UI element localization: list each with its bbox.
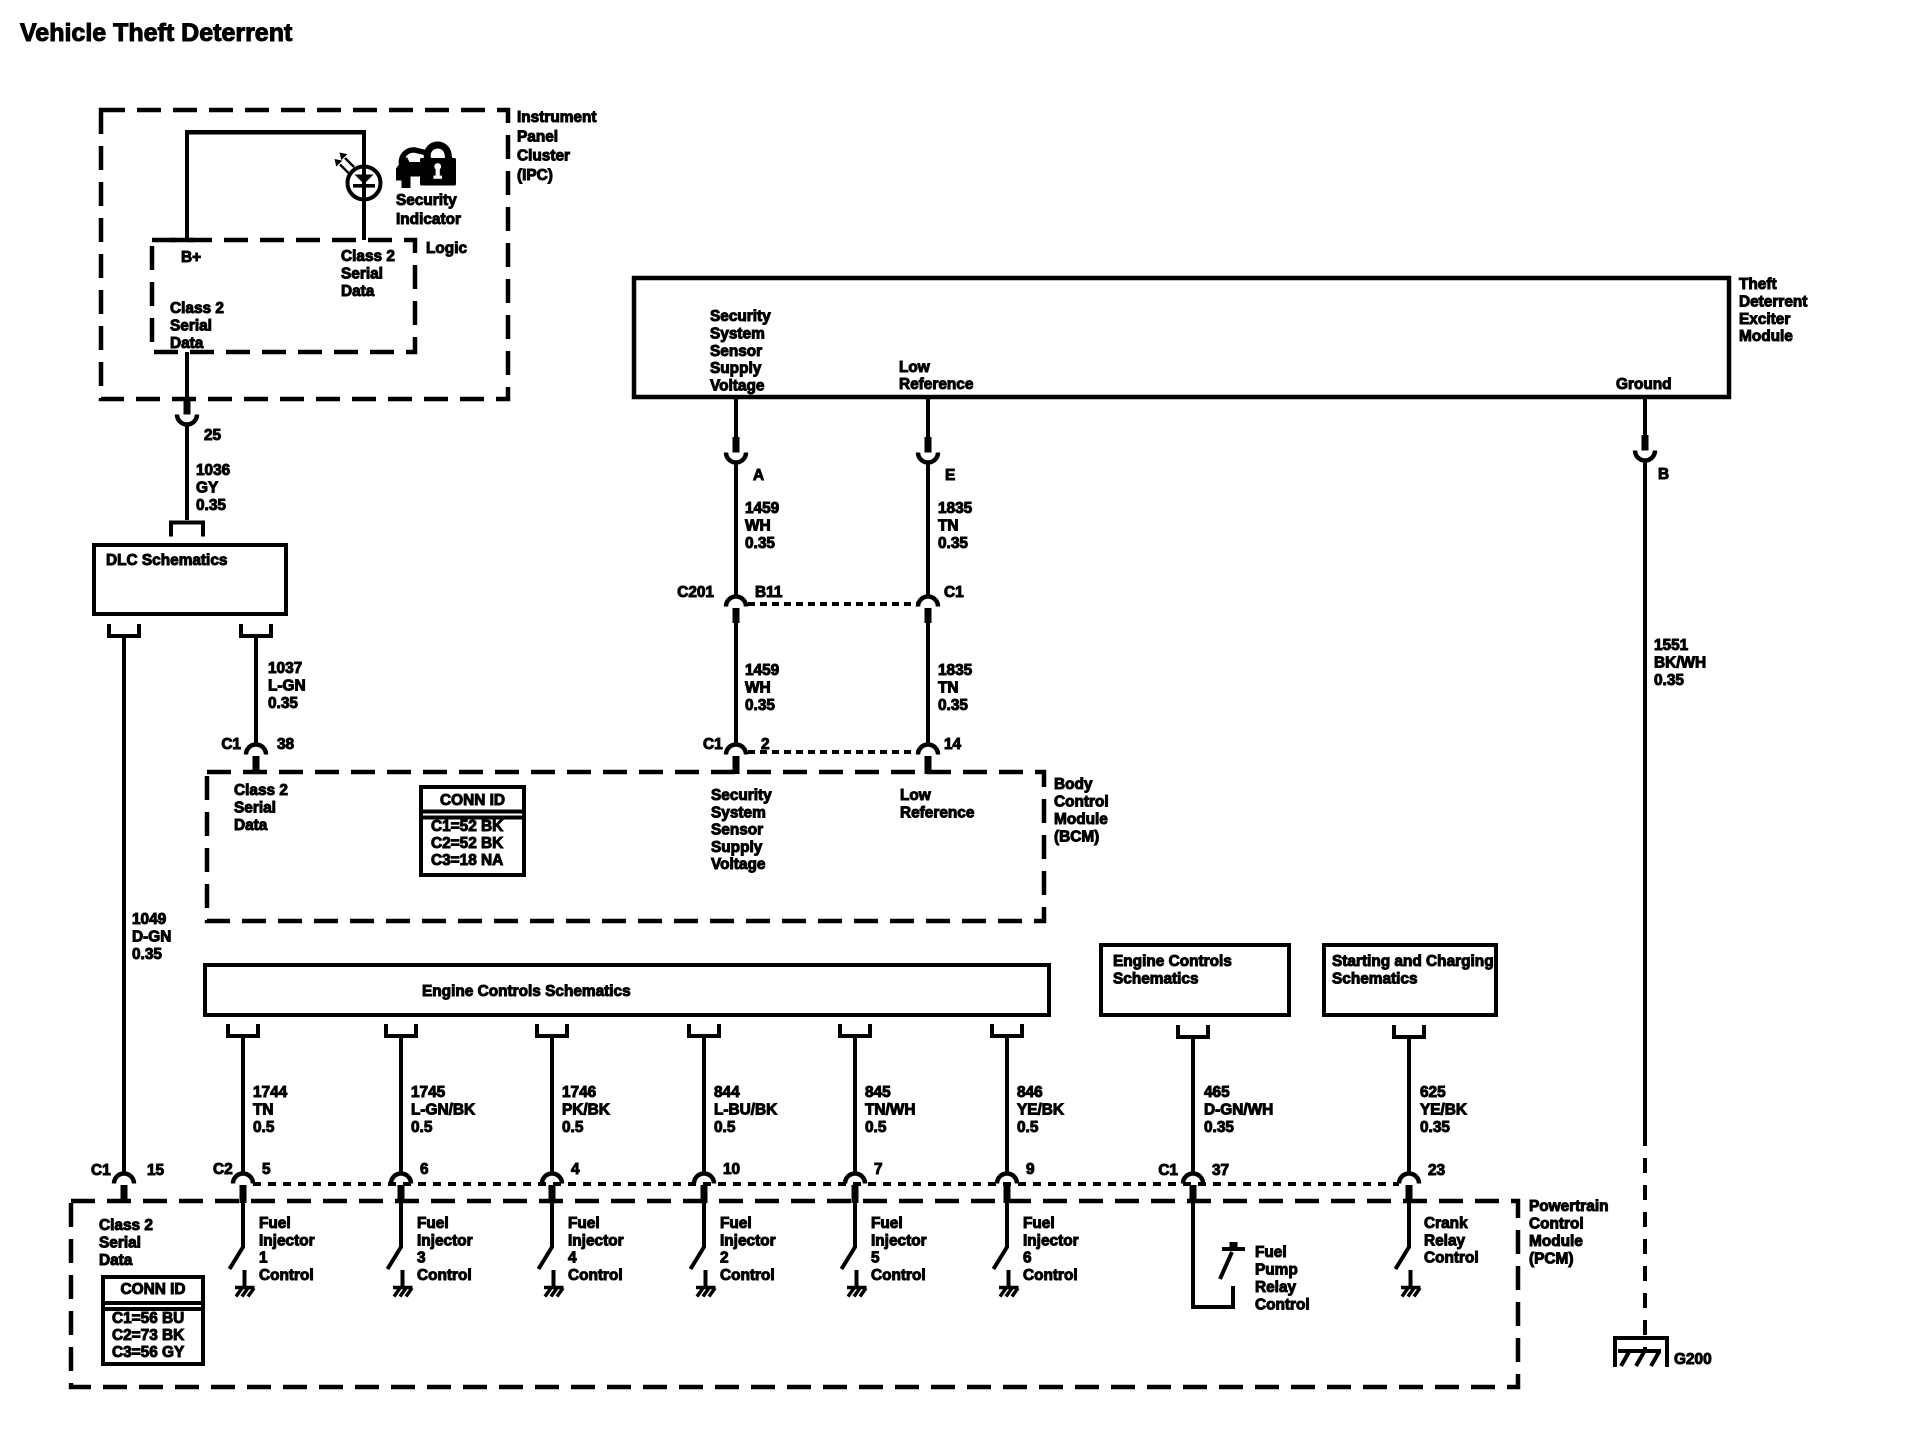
svg-text:38: 38 bbox=[277, 736, 295, 753]
crank relay control switch bbox=[1396, 1203, 1411, 1287]
svg-text:10: 10 bbox=[723, 1161, 740, 1178]
bracket under Starting and Charging box bbox=[1394, 1025, 1424, 1037]
svg-text:C1: C1 bbox=[703, 736, 723, 753]
Body Control Module (BCM) dashed box bbox=[207, 772, 1044, 921]
dashed link C201 connectors bbox=[748, 602, 918, 606]
svg-text:E: E bbox=[945, 467, 955, 484]
Theft Deterrent Exciter Module box bbox=[634, 278, 1729, 397]
security car+padlock icon bbox=[396, 144, 456, 188]
svg-text:6: 6 bbox=[420, 1161, 429, 1178]
bracket under small Engine Controls box bbox=[1178, 1025, 1208, 1037]
bracket under Engine Controls box (wire 844) bbox=[689, 1024, 719, 1036]
svg-text:4: 4 bbox=[571, 1161, 580, 1178]
wire 1459 WH lower segment bbox=[734, 623, 738, 745]
CONN ID table (PCM) bbox=[103, 1277, 203, 1364]
wire 1746 PK/BK bbox=[550, 1036, 554, 1174]
connector pin 14 into BCM bbox=[918, 745, 938, 774]
svg-text:B+: B+ bbox=[181, 249, 201, 266]
chassis ground (fuel injector 5) bbox=[847, 1288, 867, 1297]
fuel injector 1 control switch bbox=[230, 1203, 245, 1287]
connector pin 4 into PCM bbox=[542, 1174, 562, 1204]
wire from exciter pin B (Ground) bbox=[1643, 397, 1647, 435]
LED security indicator (photodiode circle with arrows) bbox=[335, 153, 381, 200]
svg-text:14: 14 bbox=[944, 736, 962, 753]
IPC logic inner dashed box bbox=[152, 240, 415, 352]
connector pin 2 into BCM bbox=[726, 745, 746, 774]
wire 845 TN/WH bbox=[853, 1036, 857, 1174]
svg-text:37: 37 bbox=[1212, 1162, 1229, 1179]
bracket under Engine Controls box (wire 1746) bbox=[537, 1024, 567, 1036]
connector pin 25 (IPC) bbox=[177, 399, 197, 425]
connector pin 37 into PCM bbox=[1183, 1174, 1203, 1204]
bracket under Engine Controls box (wire 846) bbox=[992, 1024, 1022, 1036]
Powertrain Control Module (PCM) dashed box bbox=[71, 1201, 1518, 1387]
wire 844 L-BU/BK bbox=[702, 1036, 706, 1174]
inner box dash under B+ wire bbox=[170, 238, 194, 243]
svg-text:G200: G200 bbox=[1674, 1351, 1712, 1368]
Engine Controls Schematics box (small) bbox=[1101, 945, 1289, 1015]
bracket under Engine Controls box (wire 845) bbox=[840, 1024, 870, 1036]
fuel injector 4 control switch bbox=[539, 1203, 554, 1287]
wire from exciter pin E bbox=[926, 397, 930, 437]
svg-text:C1: C1 bbox=[221, 736, 241, 753]
fuel injector 6 control switch bbox=[994, 1203, 1009, 1287]
connector pin 10 into PCM bbox=[694, 1174, 714, 1204]
fuel pump relay control switch bbox=[1191, 1203, 1245, 1309]
svg-text:5: 5 bbox=[262, 1161, 271, 1178]
svg-text:Ground: Ground bbox=[1616, 376, 1672, 393]
svg-text:C2: C2 bbox=[213, 1161, 233, 1178]
svg-text:25: 25 bbox=[204, 427, 222, 444]
connector pin 23 into PCM bbox=[1399, 1174, 1419, 1204]
svg-text:DLC Schematics: DLC Schematics bbox=[106, 552, 227, 569]
chassis ground (fuel injector 2) bbox=[696, 1288, 716, 1297]
wire 1037 L-GN bbox=[254, 638, 258, 745]
wire 1835 TN upper segment bbox=[926, 463, 930, 598]
Starting and Charging Schematics box bbox=[1324, 945, 1496, 1015]
connector pin 9 into PCM bbox=[997, 1174, 1017, 1204]
bracket under Engine Controls box (wire 1744) bbox=[228, 1024, 258, 1036]
wire from exciter pin A bbox=[734, 397, 738, 437]
wire 1459 WH upper segment bbox=[734, 463, 738, 598]
DLC top notch connector bbox=[171, 523, 203, 537]
svg-text:B11: B11 bbox=[755, 584, 783, 601]
wire 846 YE/BK bbox=[1005, 1036, 1009, 1174]
wire pin25 inside IPC bbox=[185, 352, 189, 399]
dashed link PCM top connectors bbox=[253, 1182, 1399, 1186]
fuel injector 2 control switch bbox=[691, 1203, 706, 1287]
svg-text:Engine Controls Schematics: Engine Controls Schematics bbox=[422, 983, 631, 1000]
wire 1551 dashed segment to G200 bbox=[1643, 1131, 1647, 1351]
connector pin 5 into PCM bbox=[233, 1174, 253, 1204]
wire 1551 BK/WH solid segment bbox=[1643, 461, 1647, 1132]
DLC left bracket bbox=[109, 624, 139, 636]
svg-text:B: B bbox=[1658, 466, 1669, 483]
wire 1744 TN bbox=[241, 1036, 245, 1174]
chassis ground (crank relay) bbox=[1401, 1288, 1421, 1297]
svg-text:CONN ID: CONN ID bbox=[440, 792, 505, 809]
chassis ground (fuel injector 4) bbox=[544, 1288, 564, 1297]
svg-text:C1=52 BK C2=52 BK C3=18 NA: C1=52 BK C2=52 BK C3=18 NA bbox=[431, 818, 508, 869]
CONN ID table (BCM) bbox=[421, 787, 524, 875]
connector pin E bbox=[918, 437, 938, 463]
fuel injector 3 control switch bbox=[388, 1203, 403, 1287]
svg-text:A: A bbox=[753, 467, 764, 484]
svg-text:Security Indicator: Security Indicator bbox=[396, 192, 461, 228]
svg-text:C201: C201 bbox=[677, 584, 714, 601]
Engine Controls Schematics box (wide) bbox=[205, 965, 1049, 1015]
svg-text:C1: C1 bbox=[1158, 1162, 1178, 1179]
svg-text:23: 23 bbox=[1428, 1162, 1445, 1179]
connector pin 38 into BCM bbox=[246, 745, 266, 774]
wire B+ vertical bbox=[185, 130, 189, 240]
connector pin B bbox=[1635, 435, 1655, 461]
ground G200 symbol bbox=[1615, 1338, 1667, 1367]
Instrument Panel Cluster (IPC) dashed box bbox=[101, 110, 508, 399]
connector pin 15 into PCM bbox=[114, 1174, 134, 1204]
inline connector C201 pin B11 bbox=[726, 597, 746, 624]
wire 1036 upper bbox=[185, 425, 189, 521]
svg-text:C1: C1 bbox=[944, 584, 964, 601]
wire through LED (anode to Class 2 Serial Data) bbox=[362, 130, 366, 240]
chassis ground (fuel injector 3) bbox=[393, 1288, 413, 1297]
chassis ground (fuel injector 6) bbox=[999, 1288, 1019, 1297]
wire 625 YE/BK bbox=[1407, 1037, 1411, 1174]
DLC Schematics box bbox=[94, 545, 286, 614]
connector pin 7 into PCM bbox=[845, 1174, 865, 1204]
svg-text:7: 7 bbox=[874, 1161, 883, 1178]
svg-text:Logic: Logic bbox=[426, 240, 467, 257]
inline connector C201 pin C1 bbox=[918, 597, 938, 624]
DLC right bracket bbox=[241, 624, 271, 636]
connector pin 6 into PCM bbox=[391, 1174, 411, 1204]
wire 1835 TN lower segment bbox=[926, 623, 930, 745]
svg-text:CONN ID: CONN ID bbox=[121, 1281, 186, 1298]
fuel injector 5 control switch bbox=[842, 1203, 857, 1287]
bracket under Engine Controls box (wire 1745) bbox=[386, 1024, 416, 1036]
wire 1049 D-GN (long vertical) bbox=[122, 638, 126, 1174]
wire 465 D-GN/WH bbox=[1191, 1037, 1195, 1174]
wire top horizontal B+ to LED bbox=[185, 130, 364, 135]
connector pin A bbox=[726, 437, 746, 463]
wire 1745 L-GN/BK bbox=[399, 1036, 403, 1174]
svg-text:C1: C1 bbox=[91, 1162, 111, 1179]
svg-text:Vehicle Theft Deterrent: Vehicle Theft Deterrent bbox=[20, 19, 293, 47]
svg-text:15: 15 bbox=[147, 1162, 165, 1179]
svg-text:9: 9 bbox=[1026, 1161, 1035, 1178]
dashed link BCM top connectors bbox=[748, 750, 918, 754]
svg-text:C1=56 BU C2=73 BK C3=56 GY: C1=56 BU C2=73 BK C3=56 GY bbox=[112, 1310, 189, 1361]
chassis ground (fuel injector 1) bbox=[235, 1288, 255, 1297]
